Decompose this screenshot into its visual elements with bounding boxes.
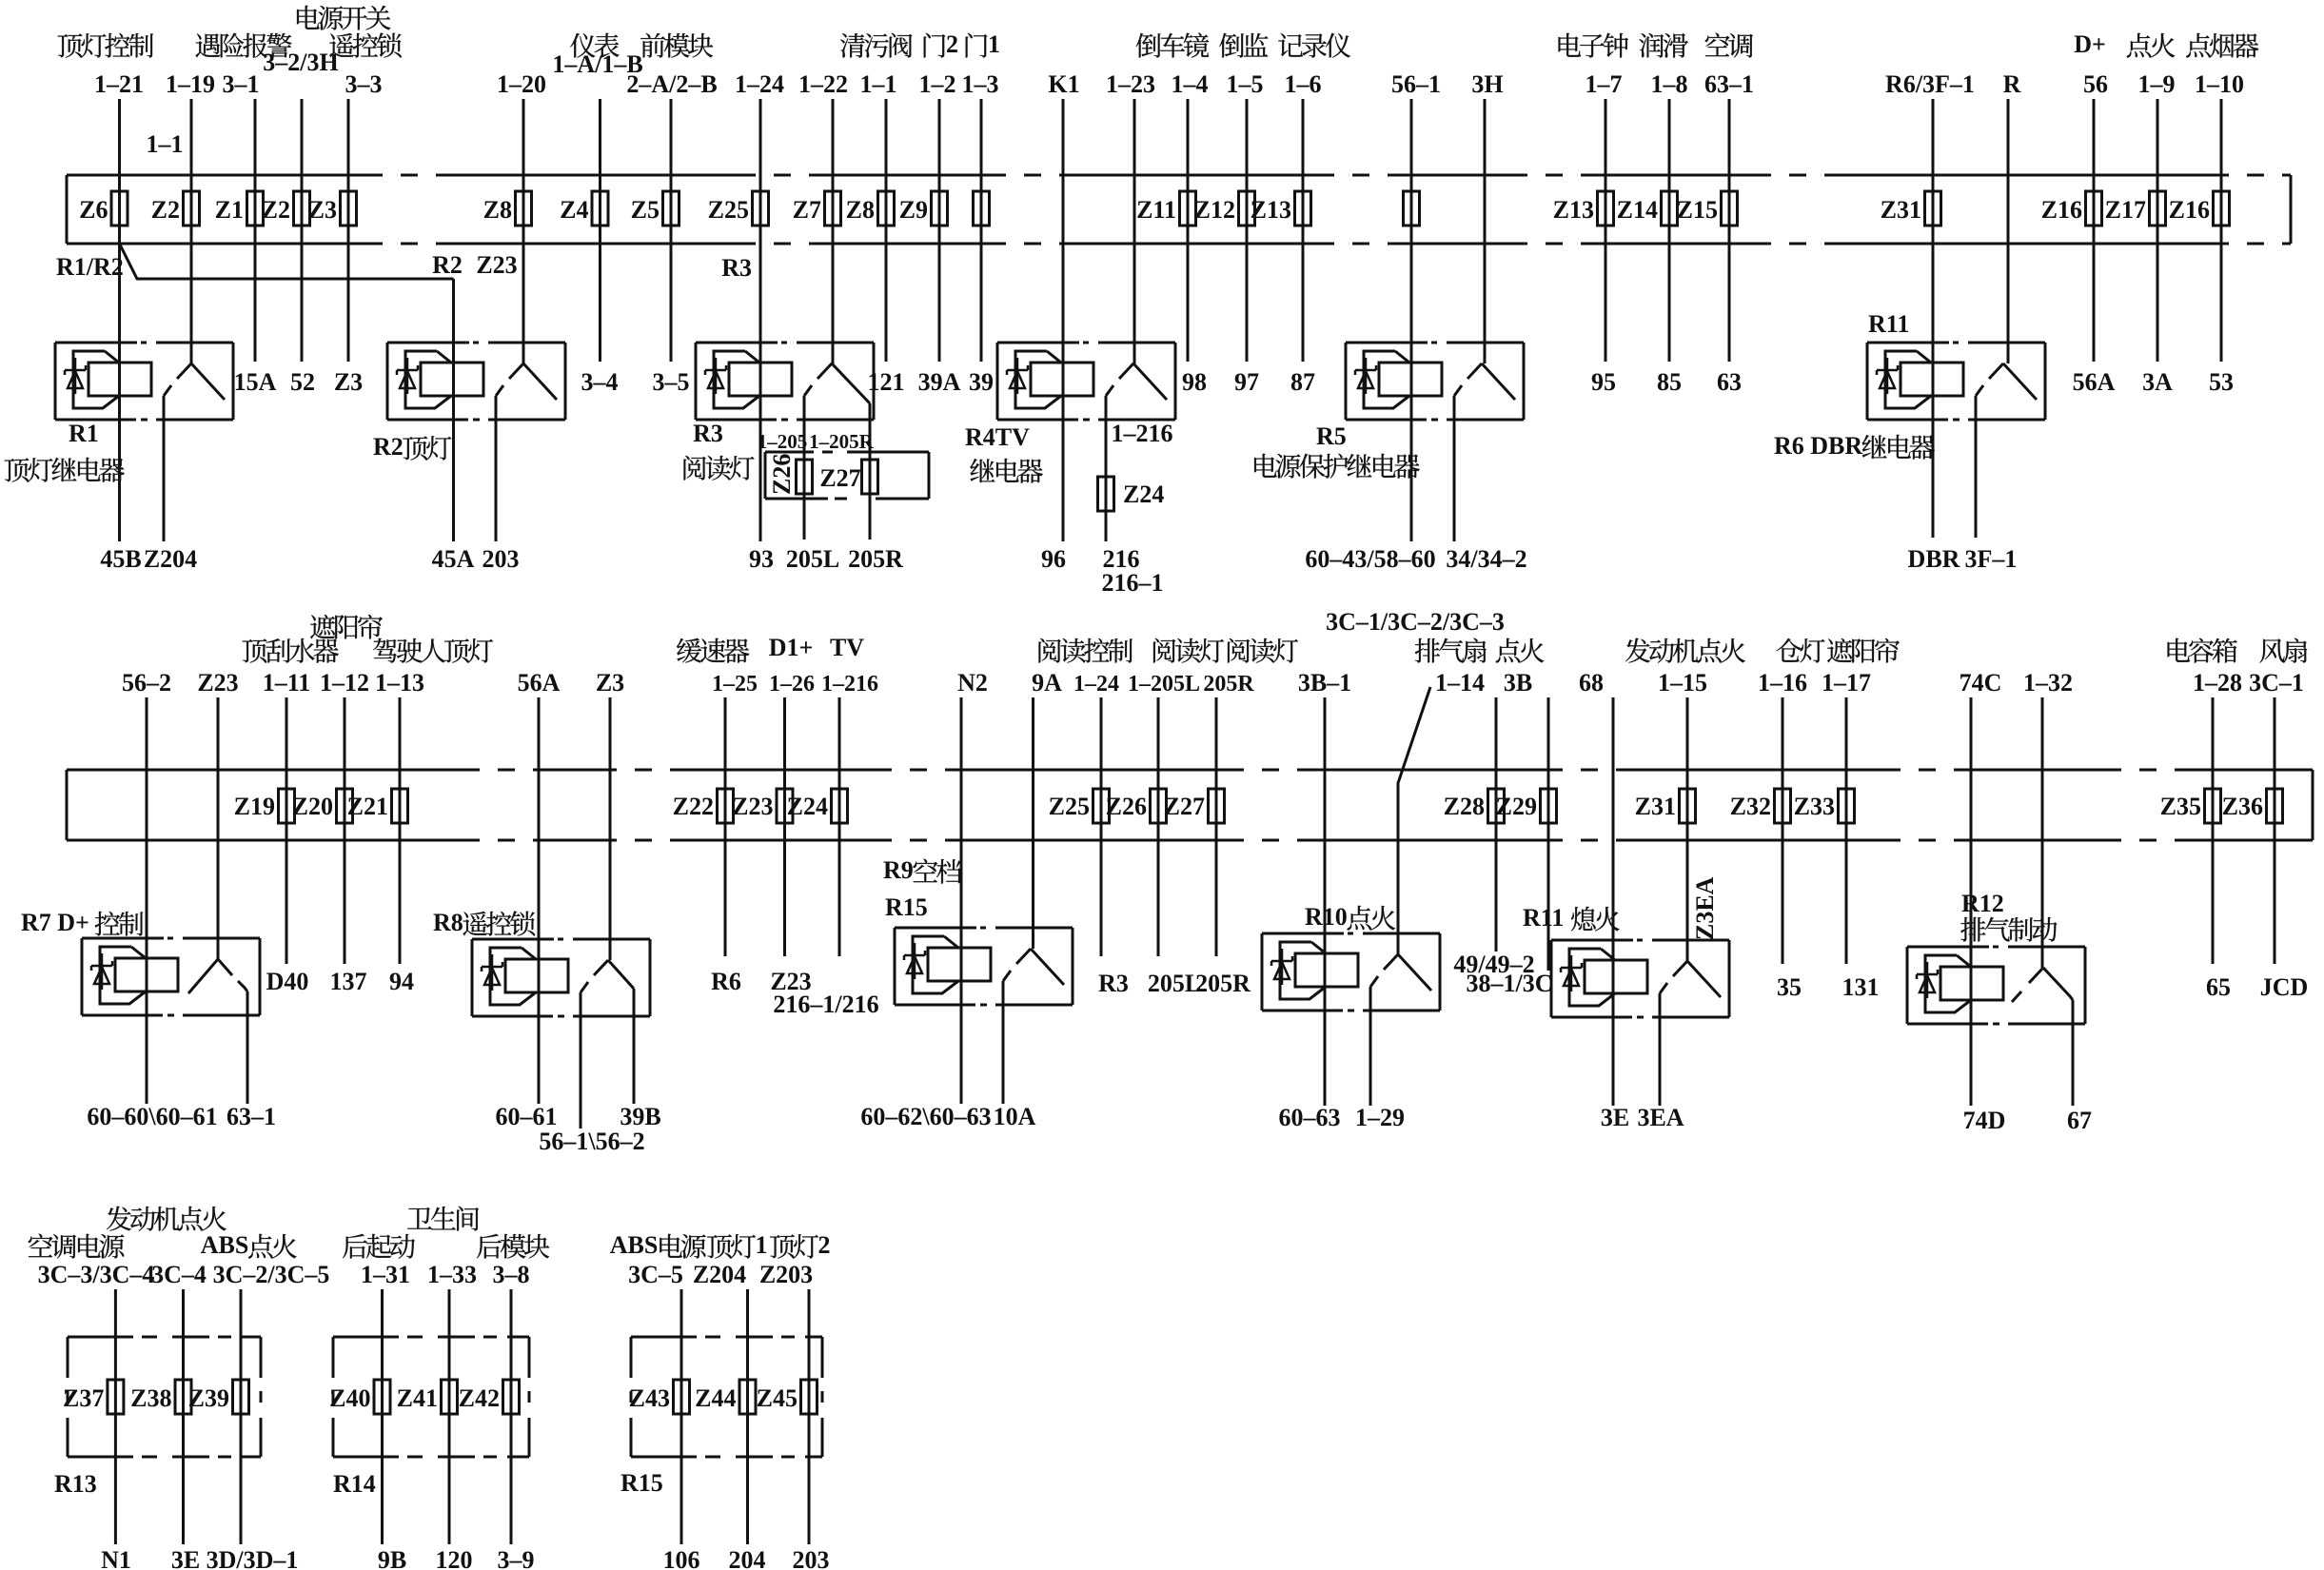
svg-text:R2: R2: [373, 433, 404, 461]
svg-text:56A: 56A: [2073, 368, 2116, 396]
svg-text:Z3: Z3: [308, 196, 337, 224]
svg-text:1–32: 1–32: [2023, 669, 2073, 697]
svg-text:35: 35: [1777, 973, 1802, 1001]
svg-text:216–1/216: 216–1/216: [773, 991, 878, 1018]
svg-text:216–1: 216–1: [1102, 569, 1164, 597]
svg-text:45B: 45B: [100, 545, 141, 573]
svg-text:98: 98: [1182, 368, 1207, 396]
svg-text:60–43/58–60: 60–43/58–60: [1305, 545, 1435, 573]
svg-text:205L: 205L: [1148, 970, 1201, 997]
svg-text:3–9: 3–9: [498, 1546, 535, 1570]
svg-text:56–1: 56–1: [1391, 70, 1441, 98]
svg-text:60–60\60–61: 60–60\60–61: [87, 1103, 217, 1130]
svg-text:Z23: Z23: [476, 251, 517, 279]
svg-text:R2: R2: [432, 251, 463, 279]
svg-text:Z37: Z37: [63, 1384, 104, 1412]
svg-text:3E: 3E: [1601, 1104, 1629, 1131]
svg-text:Z32: Z32: [1730, 793, 1771, 820]
svg-text:R5: R5: [1316, 422, 1347, 450]
svg-text:96: 96: [1041, 545, 1066, 573]
svg-text:Z203: Z203: [759, 1261, 813, 1288]
svg-text:63: 63: [1717, 368, 1742, 396]
svg-text:1–1: 1–1: [147, 130, 184, 158]
svg-text:Z24: Z24: [787, 793, 828, 820]
svg-text:3B–1: 3B–1: [1298, 669, 1351, 697]
svg-text:1–5: 1–5: [1227, 70, 1264, 98]
svg-text:K1: K1: [1048, 70, 1079, 98]
svg-text:Z13: Z13: [1251, 196, 1291, 224]
svg-text:Z8: Z8: [846, 196, 875, 224]
svg-text:1–19: 1–19: [166, 70, 215, 98]
svg-text:1–13: 1–13: [375, 669, 424, 697]
svg-text:Z5: Z5: [631, 196, 660, 224]
svg-text:Z13: Z13: [1553, 196, 1594, 224]
svg-text:1–29: 1–29: [1355, 1104, 1405, 1131]
svg-text:Z2: Z2: [151, 196, 180, 224]
svg-text:1–8: 1–8: [1651, 70, 1688, 98]
svg-text:74D: 74D: [1963, 1107, 2006, 1134]
svg-text:1–24: 1–24: [1073, 672, 1119, 697]
svg-text:205R: 205R: [1195, 970, 1251, 997]
svg-text:1–28: 1–28: [2193, 669, 2242, 697]
svg-text:3C–5: 3C–5: [628, 1261, 683, 1288]
svg-text:2: 2: [818, 1231, 831, 1259]
svg-text:R11: R11: [1868, 310, 1909, 338]
svg-text:204: 204: [729, 1546, 766, 1570]
svg-text:3D/3D–1: 3D/3D–1: [207, 1546, 299, 1570]
svg-text:3C–2/3C–5: 3C–2/3C–5: [213, 1261, 330, 1288]
svg-text:R3: R3: [693, 420, 723, 447]
svg-text:R6: R6: [711, 968, 741, 995]
svg-text:R7 D+: R7 D+: [21, 909, 89, 936]
svg-text:R15: R15: [885, 893, 928, 921]
svg-text:203: 203: [793, 1546, 830, 1570]
svg-text:Z204: Z204: [693, 1261, 746, 1288]
svg-text:Z36: Z36: [2222, 793, 2263, 820]
svg-text:56A: 56A: [518, 669, 561, 697]
svg-text:60–63: 60–63: [1279, 1104, 1341, 1131]
svg-text:R15: R15: [620, 1469, 663, 1497]
svg-text:Z3: Z3: [334, 368, 363, 396]
svg-text:97: 97: [1234, 368, 1259, 396]
svg-text:94: 94: [389, 968, 414, 995]
svg-text:9B: 9B: [378, 1546, 406, 1570]
svg-text:Z6: Z6: [79, 196, 108, 224]
svg-text:1–17: 1–17: [1822, 669, 1871, 697]
svg-text:1–4: 1–4: [1172, 70, 1209, 98]
svg-text:1–9: 1–9: [2138, 70, 2176, 98]
svg-text:3A: 3A: [2142, 368, 2173, 396]
svg-text:1–31: 1–31: [361, 1261, 410, 1288]
svg-text:Z17: Z17: [2105, 196, 2146, 224]
svg-text:74C: 74C: [1960, 669, 2002, 697]
svg-text:3–1: 3–1: [223, 70, 260, 98]
svg-text:3E: 3E: [171, 1546, 200, 1570]
svg-text:R3: R3: [1098, 970, 1129, 997]
svg-text:TV: TV: [830, 634, 864, 661]
svg-text:D+: D+: [2074, 30, 2106, 58]
svg-text:Z31: Z31: [1635, 793, 1676, 820]
svg-text:60–62\60–63: 60–62\60–63: [860, 1103, 991, 1130]
svg-text:1–33: 1–33: [427, 1261, 477, 1288]
svg-text:Z11: Z11: [1136, 196, 1176, 224]
svg-text:Z204: Z204: [144, 545, 197, 573]
svg-text:Z31: Z31: [1881, 196, 1921, 224]
svg-text:1–3: 1–3: [962, 70, 999, 98]
svg-text:68: 68: [1579, 669, 1604, 697]
svg-text:106: 106: [663, 1546, 700, 1570]
svg-text:R11: R11: [1523, 904, 1564, 932]
svg-text:Z29: Z29: [1496, 793, 1537, 820]
svg-text:1–23: 1–23: [1106, 70, 1155, 98]
svg-text:3–4: 3–4: [581, 368, 619, 396]
svg-text:34/34–2: 34/34–2: [1446, 545, 1526, 573]
svg-text:121: 121: [868, 368, 905, 396]
svg-text:1–24: 1–24: [735, 70, 784, 98]
svg-text:Z3: Z3: [596, 669, 624, 697]
svg-text:53: 53: [2209, 368, 2234, 396]
svg-text:3–5: 3–5: [653, 368, 690, 396]
svg-text:203: 203: [483, 545, 520, 573]
svg-text:Z35: Z35: [2160, 793, 2201, 820]
svg-text:Z23: Z23: [732, 793, 773, 820]
svg-text:R13: R13: [54, 1470, 97, 1498]
svg-text:Z9: Z9: [899, 196, 928, 224]
svg-text:D40: D40: [266, 968, 309, 995]
svg-text:205L: 205L: [786, 545, 839, 573]
svg-text:Z26: Z26: [1106, 793, 1147, 820]
svg-text:1–16: 1–16: [1758, 669, 1807, 697]
svg-text:Z12: Z12: [1194, 196, 1235, 224]
svg-text:R6/3F–1: R6/3F–1: [1885, 70, 1975, 98]
svg-text:Z8: Z8: [483, 196, 512, 224]
svg-text:39B: 39B: [620, 1103, 660, 1130]
svg-text:56–2: 56–2: [122, 669, 171, 697]
svg-text:65: 65: [2206, 973, 2231, 1001]
svg-text:1–216: 1–216: [1112, 420, 1173, 447]
svg-text:Z21: Z21: [347, 793, 388, 820]
svg-text:3C–1/3C–2/3C–3: 3C–1/3C–2/3C–3: [1326, 608, 1505, 636]
svg-text:R: R: [2003, 70, 2021, 98]
svg-text:Z7: Z7: [793, 196, 821, 224]
svg-text:Z16: Z16: [2041, 196, 2082, 224]
svg-text:DBR: DBR: [1908, 545, 1960, 573]
svg-text:Z43: Z43: [629, 1384, 670, 1412]
svg-text:1–10: 1–10: [2195, 70, 2244, 98]
svg-text:1–1: 1–1: [860, 70, 897, 98]
svg-text:39A: 39A: [918, 368, 961, 396]
svg-text:39: 39: [969, 368, 994, 396]
svg-text:Z4: Z4: [560, 196, 588, 224]
svg-text:R6 DBR: R6 DBR: [1774, 432, 1862, 460]
svg-text:Z40: Z40: [329, 1384, 370, 1412]
svg-text:1–15: 1–15: [1658, 669, 1707, 697]
svg-text:1–21: 1–21: [94, 70, 144, 98]
svg-text:3C–4: 3C–4: [151, 1261, 207, 1288]
svg-text:2: 2: [946, 30, 958, 58]
svg-text:3EA: 3EA: [1637, 1104, 1684, 1131]
svg-text:1–25: 1–25: [712, 672, 758, 697]
svg-text:Z27: Z27: [1164, 793, 1205, 820]
svg-text:3–2/3H: 3–2/3H: [263, 49, 338, 76]
svg-text:60–61: 60–61: [496, 1103, 558, 1130]
svg-text:1–14: 1–14: [1435, 669, 1485, 697]
svg-text:1–6: 1–6: [1285, 70, 1322, 98]
svg-text:3–3: 3–3: [345, 70, 383, 98]
svg-text:67: 67: [2067, 1107, 2092, 1134]
svg-text:1: 1: [988, 30, 1000, 58]
svg-text:52: 52: [290, 368, 315, 396]
svg-text:Z15: Z15: [1677, 196, 1718, 224]
svg-text:3B: 3B: [1504, 669, 1532, 697]
svg-text:1–2: 1–2: [919, 70, 956, 98]
svg-text:Z20: Z20: [292, 793, 333, 820]
svg-text:R4TV: R4TV: [965, 423, 1030, 451]
svg-text:Z42: Z42: [459, 1384, 500, 1412]
svg-text:Z27: Z27: [819, 464, 860, 492]
svg-text:9A: 9A: [1032, 669, 1062, 697]
svg-text:120: 120: [436, 1546, 473, 1570]
svg-text:Z28: Z28: [1444, 793, 1485, 820]
svg-text:Z3EA: Z3EA: [1691, 876, 1719, 940]
svg-text:Z26: Z26: [768, 454, 796, 495]
svg-text:Z25: Z25: [1049, 793, 1090, 820]
svg-text:10A: 10A: [994, 1103, 1036, 1130]
svg-text:1–22: 1–22: [798, 70, 848, 98]
svg-text:Z44: Z44: [695, 1384, 736, 1412]
svg-text:ABS: ABS: [201, 1231, 249, 1259]
svg-text:85: 85: [1657, 368, 1682, 396]
svg-text:137: 137: [330, 968, 367, 995]
svg-text:ABS: ABS: [610, 1231, 659, 1259]
svg-text:3H: 3H: [1471, 70, 1503, 98]
svg-text:1–205R: 1–205R: [809, 430, 875, 453]
svg-text:Z25: Z25: [708, 196, 749, 224]
svg-text:R8: R8: [433, 909, 463, 936]
svg-text:Z39: Z39: [188, 1384, 229, 1412]
svg-text:Z14: Z14: [1617, 196, 1658, 224]
svg-text:R3: R3: [721, 254, 752, 282]
svg-text:Z45: Z45: [757, 1384, 798, 1412]
svg-text:1: 1: [756, 1231, 768, 1259]
svg-text:87: 87: [1290, 368, 1315, 396]
svg-text:Z41: Z41: [397, 1384, 438, 1412]
svg-text:N1: N1: [101, 1546, 131, 1570]
svg-text:1–12: 1–12: [320, 669, 369, 697]
svg-text:1–20: 1–20: [497, 70, 546, 98]
svg-text:Z23: Z23: [197, 669, 238, 697]
svg-text:JCD: JCD: [2260, 973, 2309, 1001]
svg-text:N2: N2: [957, 669, 988, 697]
svg-text:63–1: 63–1: [226, 1103, 276, 1130]
svg-text:Z2: Z2: [262, 196, 290, 224]
svg-text:3–8: 3–8: [493, 1261, 530, 1288]
svg-text:95: 95: [1591, 368, 1616, 396]
svg-text:1–205: 1–205: [758, 430, 808, 453]
svg-text:Z19: Z19: [234, 793, 275, 820]
svg-text:15A: 15A: [234, 368, 277, 396]
svg-text:Z22: Z22: [673, 793, 714, 820]
svg-text:56–1\56–2: 56–1\56–2: [539, 1128, 644, 1155]
svg-text:Z33: Z33: [1794, 793, 1835, 820]
svg-text:1–205L: 1–205L: [1128, 672, 1200, 697]
svg-text:Z16: Z16: [2169, 196, 2210, 224]
svg-text:3C–1: 3C–1: [2249, 669, 2304, 697]
svg-text:131: 131: [1842, 973, 1880, 1001]
svg-text:38–1/3C: 38–1/3C: [1467, 970, 1553, 997]
svg-text:R10: R10: [1305, 903, 1348, 931]
svg-text:Z1: Z1: [215, 196, 244, 224]
svg-text:R12: R12: [1961, 890, 2004, 917]
svg-text:D1+: D1+: [769, 634, 814, 661]
svg-text:205R: 205R: [1203, 672, 1254, 697]
svg-text:56: 56: [2083, 70, 2108, 98]
svg-text:R14: R14: [333, 1470, 376, 1498]
svg-text:R1: R1: [69, 420, 99, 447]
svg-text:205R: 205R: [848, 545, 903, 573]
svg-text:1–7: 1–7: [1585, 70, 1623, 98]
svg-text:1–11: 1–11: [263, 669, 311, 697]
svg-text:3F–1: 3F–1: [1965, 545, 2018, 573]
svg-text:2–A/2–B: 2–A/2–B: [626, 70, 717, 98]
svg-text:R9: R9: [883, 856, 914, 884]
svg-text:45A: 45A: [432, 545, 475, 573]
svg-text:1–26: 1–26: [769, 672, 815, 697]
svg-text:1–216: 1–216: [821, 672, 878, 697]
svg-text:Z24: Z24: [1123, 481, 1164, 508]
svg-text:3C–3/3C–4: 3C–3/3C–4: [38, 1261, 155, 1288]
svg-text:63–1: 63–1: [1704, 70, 1754, 98]
svg-text:93: 93: [749, 545, 774, 573]
svg-text:R1/R2: R1/R2: [56, 253, 124, 281]
svg-text:Z38: Z38: [130, 1384, 171, 1412]
